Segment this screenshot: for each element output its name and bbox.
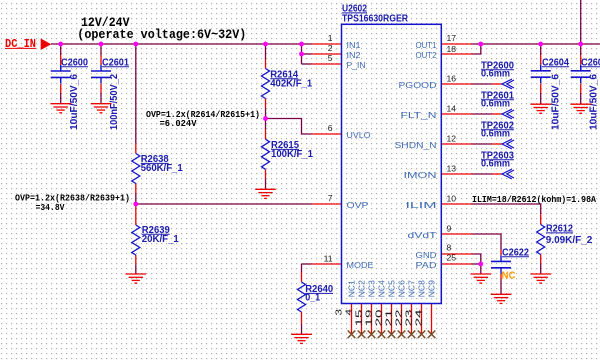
test point TP2603 [502, 169, 514, 179]
wire OUT2 elbow [472, 44, 481, 54]
lead R2615 bottom [265, 169, 267, 179]
pin stub OVP pin7 [312, 203, 342, 205]
svg-text:18: 18 [447, 44, 457, 54]
wire UVLO feed [266, 119, 312, 135]
no-connect X NC3 [368, 331, 376, 339]
junction C2604 tap [538, 42, 543, 47]
lead C2605 top [580, 55, 582, 65]
wire PGOOD to TP2600 [472, 83, 493, 85]
pin stub NC8 [421, 304, 423, 335]
svg-text:100nF/50V_2: 100nF/50V_2 [109, 74, 120, 130]
wire OVP feed [136, 203, 312, 205]
wire drop to C2604 [540, 44, 542, 55]
wire MODE feed [302, 263, 312, 265]
lead C2600 bottom [60, 84, 62, 93]
svg-text:5: 5 [328, 53, 333, 63]
pin stub ILIM pin10 [441, 203, 471, 205]
svg-text:UVLO: UVLO [347, 130, 371, 140]
svg-text:0.6mm: 0.6mm [481, 69, 510, 80]
pin stub NC7 [411, 304, 413, 335]
junction R2614 tap [263, 42, 268, 47]
pin stub dVdT pin9 [441, 233, 471, 235]
svg-text:dVdT: dVdT [408, 230, 437, 240]
test point TP2602 [502, 139, 514, 149]
wire R2638 to OVP node [135, 194, 137, 205]
lead TP2600 [492, 83, 502, 85]
lead R2639 top [135, 204, 137, 225]
svg-text:GND: GND [416, 250, 437, 260]
svg-text:24: 24 [415, 309, 424, 327]
wire PAD to node [472, 263, 481, 265]
wire drop to C2601 [100, 44, 102, 55]
svg-text:NC4: NC4 [377, 280, 387, 297]
wire R2639 to ground [135, 264, 137, 274]
svg-text:16: 16 [447, 74, 457, 84]
junction R2638 tap [133, 42, 138, 47]
svg-text:0.6mm: 0.6mm [481, 129, 510, 140]
svg-text:8: 8 [447, 243, 452, 253]
test point TP2600 [502, 79, 514, 89]
pin stub P_IN pin5 [312, 63, 342, 65]
svg-text:19: 19 [365, 309, 374, 327]
svg-text:10uF/50V_6: 10uF/50V_6 [589, 73, 600, 130]
junction OVP node [133, 202, 138, 207]
svg-text:IN1: IN1 [347, 40, 361, 50]
svg-text:ILIM=18/R2612(kohm)=1.98A: ILIM=18/R2612(kohm)=1.98A [472, 195, 597, 205]
svg-text:PAD: PAD [416, 260, 437, 270]
pin stub OUT2 pin18 [441, 53, 471, 55]
pin stub UVLO pin6 [312, 133, 342, 135]
svg-text:10uF/50V_6: 10uF/50V_6 [69, 73, 80, 130]
resistor R2614 [262, 69, 270, 99]
pin stub NC1 [351, 304, 353, 335]
svg-text:ILIM: ILIM [406, 200, 437, 210]
capacitor C2604 [531, 65, 551, 83]
lead R2615 top [265, 129, 267, 139]
svg-text:1: 1 [328, 33, 333, 43]
svg-text:20: 20 [375, 309, 384, 327]
pin stub IN1 pin1 [312, 43, 342, 45]
svg-text:25: 25 [447, 253, 457, 263]
resistor R2638 [132, 154, 140, 184]
lead R2639 bottom [135, 255, 137, 264]
pin stub NC3 [371, 304, 373, 335]
svg-text:12: 12 [447, 134, 457, 144]
wire P_IN feed [302, 63, 312, 65]
svg-text:OUT1: OUT1 [416, 40, 437, 50]
svg-text:0.6mm: 0.6mm [481, 99, 510, 110]
svg-text:13: 13 [447, 164, 457, 174]
svg-text:10: 10 [447, 194, 457, 204]
svg-text:PGOOD: PGOOD [399, 80, 437, 90]
svg-text:IN2: IN2 [347, 50, 361, 60]
wire ILIM to R2612 [472, 204, 541, 214]
lead C2622 bottom [500, 274, 502, 279]
svg-text:NC7: NC7 [407, 280, 417, 297]
wire R2640 to ground [301, 324, 303, 335]
pin stub NC9 [431, 304, 433, 335]
ground C2622 [491, 294, 512, 303]
svg-text:MODE: MODE [347, 260, 374, 270]
no-connect X NC7 [408, 331, 416, 339]
wire C2604 to ground [540, 93, 542, 104]
pin stub GND pin8 [441, 253, 471, 255]
svg-text:23: 23 [405, 309, 414, 327]
lead C2604 bottom [540, 84, 542, 93]
svg-text:4: 4 [345, 308, 354, 315]
svg-text:14: 14 [447, 104, 457, 114]
ground R2640 [291, 334, 312, 343]
svg-text:9: 9 [447, 224, 452, 234]
ground R2615 [255, 189, 276, 198]
svg-text:NC1: NC1 [347, 280, 357, 297]
lead R2638 top [135, 144, 137, 154]
svg-text:10uF/50V_6: 10uF/50V_6 [551, 73, 562, 130]
svg-text:TPS16630RGER: TPS16630RGER [342, 13, 408, 24]
svg-text:OVP: OVP [347, 200, 369, 210]
svg-text:11: 11 [324, 254, 333, 264]
capacitor C2605 [571, 65, 591, 83]
pin stub IMON pin13 [441, 173, 471, 175]
wire top right riser [580, 0, 582, 44]
capacitor C2622 [491, 255, 511, 273]
svg-text:NC3: NC3 [367, 280, 377, 297]
svg-text:7: 7 [328, 193, 333, 203]
lead R2612 bottom [540, 255, 542, 264]
svg-text:15: 15 [355, 309, 364, 327]
lead C2605 bottom [580, 84, 582, 93]
svg-text:100K/F_1: 100K/F_1 [271, 149, 313, 160]
junction PAD node [478, 262, 483, 267]
wire PAD to ground [480, 264, 482, 274]
lead TP2602 [492, 143, 502, 145]
wire node to R2615 [265, 119, 267, 130]
pin stub NC6 [401, 304, 403, 335]
pin stub NC5 [391, 304, 393, 335]
svg-text:NC9: NC9 [427, 280, 437, 297]
lead R2612 top [540, 214, 542, 224]
svg-text:20K/F_1: 20K/F_1 [142, 234, 179, 245]
ground R2612 [530, 274, 551, 283]
wire drop to C2605 [580, 44, 582, 55]
lead C2601 top [100, 55, 102, 65]
ground C2600 [50, 104, 71, 113]
lead R2640 top [301, 272, 303, 282]
ground PAD [471, 274, 492, 283]
resistor R2612 [537, 225, 545, 255]
svg-text:FLT_N: FLT_N [401, 110, 437, 120]
wire FLT_N to TP2601 [472, 113, 493, 115]
svg-text:=6.024V: =6.024V [160, 119, 198, 129]
lead C2604 top [540, 55, 542, 65]
ground C2604 [530, 104, 551, 113]
pin stub PGOOD pin16 [441, 83, 471, 85]
svg-text:0.6mm: 0.6mm [481, 159, 510, 170]
ground C2601 [91, 104, 112, 113]
pin stub IN2 pin2 [312, 53, 342, 55]
svg-text:2: 2 [328, 43, 333, 53]
svg-text:NC5: NC5 [387, 280, 397, 297]
svg-text:22: 22 [395, 309, 404, 327]
svg-text:NC: NC [502, 271, 516, 282]
wire IMON to TP2603 [472, 173, 493, 175]
lead C2600 top [60, 55, 62, 65]
svg-text:OVP=1.2x(R2638/R2639+1): OVP=1.2x(R2638/R2639+1) [15, 194, 130, 204]
svg-text:NC8: NC8 [417, 280, 427, 297]
svg-text:IMON: IMON [404, 170, 437, 180]
lead TP2601 [492, 113, 502, 115]
svg-text:6: 6 [328, 123, 333, 133]
lead TP2603 [492, 173, 502, 175]
junction C2600 tap [58, 42, 63, 47]
no-connect X NC9 [428, 331, 436, 339]
wire drop to R2638 [135, 44, 137, 144]
wire dVdT to C2622 [472, 234, 502, 250]
wire output bus [472, 43, 600, 45]
capacitor C2600 [51, 65, 71, 83]
svg-text:3: 3 [335, 308, 344, 315]
wire R2612 to ground [540, 263, 542, 274]
wire C2600 to ground [60, 93, 62, 104]
wire C2622 to ground [500, 279, 502, 294]
svg-text:402K/F_1: 402K/F_1 [270, 79, 312, 90]
svg-text:0_1: 0_1 [305, 293, 320, 304]
svg-text:=34.8V: =34.8V [36, 203, 66, 213]
junction OUT2 node [478, 42, 483, 47]
svg-text:17: 17 [447, 33, 457, 43]
svg-text:9.09K/F_2: 9.09K/F_2 [546, 235, 593, 246]
ground C2605 [570, 104, 591, 113]
wire IN2 feed [302, 53, 312, 55]
lead C2622 top [500, 250, 502, 256]
svg-text:NC6: NC6 [397, 280, 407, 297]
junction C2601 tap [99, 42, 104, 47]
pin stub NC2 [361, 304, 363, 335]
resistor R2640 [298, 282, 306, 312]
test point TP2601 [502, 109, 514, 119]
wire MODE to R2640 [301, 264, 303, 272]
wire main input bus y44 [51, 43, 312, 45]
junction IN2 node [299, 52, 304, 57]
junction UVLO node [263, 116, 268, 121]
no-connect X NC5 [388, 331, 396, 339]
svg-text:NC2: NC2 [357, 280, 367, 297]
pin stub SHDN_N pin12 [441, 143, 471, 145]
resistor R2615 [262, 139, 270, 169]
pin stub MODE pin11 [312, 263, 342, 265]
pin stub OUT1 pin17 [441, 43, 471, 45]
wire drop to C2600 [60, 44, 62, 55]
lead R2614 top [265, 59, 267, 69]
svg-text:560K/F_1: 560K/F_1 [141, 163, 183, 174]
lead C2601 bottom [100, 84, 102, 93]
lead R2638 bottom [135, 184, 137, 194]
wire R2614 to node [265, 108, 267, 118]
wire GND elbow [472, 254, 481, 264]
pin stub PAD pin25 [441, 263, 471, 265]
no-connect X NC6 [398, 331, 406, 339]
lead R2640 bottom [301, 312, 303, 324]
ground R2639 [126, 274, 147, 283]
svg-text:P_IN: P_IN [347, 60, 366, 70]
resistor R2639 [132, 225, 140, 255]
svg-text:OUT2: OUT2 [416, 50, 437, 60]
wire SHDN_N to TP2602 [472, 143, 493, 145]
svg-text:(operate voltage:6V~32V): (operate voltage:6V~32V) [77, 28, 246, 42]
no-connect X NC4 [378, 331, 386, 339]
wire C2601 to ground [100, 93, 102, 104]
wire C2605 to ground [580, 93, 582, 104]
lead R2614 bottom [265, 99, 267, 109]
wire R2615 to ground [265, 179, 267, 189]
no-connect X NC8 [418, 331, 426, 339]
wire drop to R2614 [265, 44, 267, 59]
op-amp U1 IC body TPS16630RGER [342, 24, 442, 303]
junction C2605 tap [578, 42, 583, 47]
wire branch to IN2/P_IN [301, 44, 303, 64]
pin stub FLT_N pin14 [441, 113, 471, 115]
no-connect X NC2 [358, 331, 366, 339]
no-connect X NC1 [348, 331, 356, 339]
junction IN2 branch [299, 42, 304, 47]
capacitor C2601 [91, 65, 111, 83]
pin stub NC4 [381, 304, 383, 335]
svg-text:SHDN_N: SHDN_N [395, 140, 437, 150]
svg-text:21: 21 [385, 309, 394, 327]
port DC_IN arrow [41, 39, 52, 51]
